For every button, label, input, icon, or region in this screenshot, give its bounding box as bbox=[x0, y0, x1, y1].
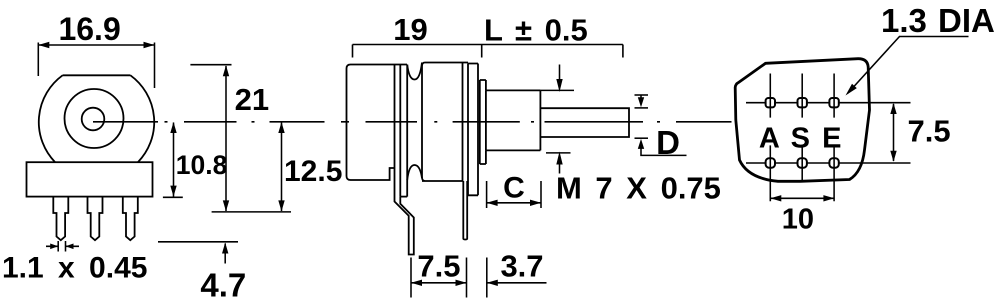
svg-text:19: 19 bbox=[393, 12, 427, 47]
front view outer body circle with flat top bbox=[39, 75, 154, 162]
dim 10 arrowheads bbox=[770, 195, 834, 201]
front view shaft small circle bbox=[82, 108, 105, 131]
dim 12.5 vertical line bbox=[281, 123, 283, 212]
centerline leader from shaft circle center bbox=[93, 121, 158, 123]
dim 7.5 ticks bbox=[411, 258, 467, 298]
svg-text:12.5: 12.5 bbox=[284, 155, 342, 188]
svg-text:7.5: 7.5 bbox=[908, 114, 951, 149]
hole S bottom bbox=[798, 158, 807, 167]
side view collar bbox=[480, 80, 486, 164]
side view body section 1 flange lines bbox=[395, 65, 408, 197]
bushing top edge extension bbox=[540, 89, 574, 91]
callout underline bbox=[899, 36, 969, 38]
callout arrowhead bbox=[846, 84, 857, 96]
side view bent leg bbox=[395, 180, 414, 255]
svg-text:C: C bbox=[503, 172, 525, 205]
centerline dash-dot segments bbox=[165, 121, 732, 123]
dim bracket ticks bbox=[353, 45, 623, 58]
dim 3.7 arrowhead bbox=[487, 280, 498, 286]
svg-text:E: E bbox=[822, 123, 841, 155]
pin 1 bbox=[53, 197, 68, 241]
side view mounting plate bbox=[468, 64, 478, 196]
svg-text:21: 21 bbox=[235, 82, 269, 117]
thread arrows bbox=[556, 79, 562, 165]
dim 10.8 bottom reference line bbox=[163, 196, 183, 198]
dim 4.7 arrowhead bbox=[222, 243, 228, 254]
svg-text:10: 10 bbox=[782, 204, 814, 236]
side view body section 2 bbox=[422, 63, 468, 182]
svg-text:16.9: 16.9 bbox=[58, 11, 120, 47]
dim 7.5 rear arrowheads bbox=[890, 103, 896, 162]
dim 3.7 line bbox=[487, 282, 547, 284]
side view body section 1 bbox=[347, 65, 408, 181]
dim 21 bottom reference line bbox=[212, 211, 291, 213]
dim 21 vertical line bbox=[225, 66, 227, 211]
dim 4.7 vertical line bbox=[224, 244, 226, 264]
hole A top bbox=[766, 98, 775, 107]
dim 7.5 arrowheads bbox=[411, 280, 467, 286]
dim 4.7 reference line (pin tips) bbox=[158, 241, 238, 243]
dim 7.5 rear vertical line bbox=[893, 104, 895, 161]
dim 10.8 vertical line bbox=[173, 123, 175, 197]
hole E top bbox=[829, 98, 838, 107]
svg-text:L ± 0.5: L ± 0.5 bbox=[484, 13, 588, 48]
svg-text:10.8: 10.8 bbox=[176, 150, 228, 180]
column lines bottom row bbox=[770, 145, 834, 201]
dim 16.9 line bbox=[38, 44, 154, 46]
side view middle pin tab bbox=[400, 196, 407, 198]
dim D upper stem bbox=[640, 95, 642, 98]
dim 19 / L bracket line bbox=[353, 44, 623, 46]
dim C ticks bbox=[487, 181, 541, 208]
thread lower arrow stem bbox=[559, 165, 561, 174]
rear view hole column lines bbox=[770, 74, 834, 202]
dim C arrowheads bbox=[487, 200, 541, 206]
hole S top bbox=[798, 98, 807, 107]
svg-text:7.5: 7.5 bbox=[417, 249, 460, 284]
front view middle circle bbox=[65, 89, 124, 148]
dim 12.5 arrowheads bbox=[278, 122, 284, 211]
dim 7.5 line bbox=[411, 282, 467, 284]
shaft top edge extension bbox=[635, 107, 649, 109]
hole E bottom bbox=[829, 158, 838, 167]
side view straight leg bbox=[463, 181, 467, 240]
svg-text:A: A bbox=[759, 123, 780, 155]
svg-text:3.7: 3.7 bbox=[500, 249, 543, 284]
dim D arrowheads bbox=[638, 97, 644, 149]
dim 16.9 extension lines bbox=[38, 43, 154, 89]
dim 16.9 arrowheads bbox=[38, 42, 154, 48]
svg-text:D: D bbox=[656, 124, 680, 161]
side view threaded bushing bbox=[486, 90, 541, 150]
shaft bottom edge extension bbox=[635, 137, 649, 139]
svg-text:M 7 X 0.75: M 7 X 0.75 bbox=[556, 171, 721, 206]
dim 10 line bbox=[770, 197, 834, 199]
rear view outline bbox=[735, 59, 869, 182]
svg-text:4.7: 4.7 bbox=[200, 267, 246, 302]
callout leader line bbox=[848, 37, 900, 94]
row centerline top bbox=[746, 102, 911, 104]
dim 21 top reference line bbox=[190, 64, 231, 66]
pin width arrowheads bbox=[50, 244, 73, 250]
dim D lower stem and leader bbox=[641, 146, 687, 155]
svg-text:1.1 x 0.45: 1.1 x 0.45 bbox=[2, 252, 147, 285]
svg-text:1.3 DIA: 1.3 DIA bbox=[881, 2, 995, 39]
thread upper arrow stem bbox=[559, 65, 561, 80]
front view base rectangle bbox=[27, 162, 153, 196]
dim C line bbox=[487, 202, 541, 204]
svg-text:S: S bbox=[791, 123, 810, 155]
dim 3.7 tick bbox=[486, 258, 488, 298]
side view waist neck curves bbox=[407, 63, 422, 181]
pin 2 bbox=[88, 197, 103, 241]
dim 10.8 arrowheads bbox=[170, 122, 176, 197]
rear view row centerlines bbox=[746, 103, 911, 163]
pin width dim ticks bbox=[58, 241, 65, 252]
dim 21 arrowheads bbox=[223, 65, 229, 211]
dim D upper bar bbox=[635, 94, 649, 96]
pin 3 bbox=[123, 197, 138, 241]
pin width dim arrow lines bbox=[46, 245, 79, 247]
column lines top row bbox=[770, 74, 834, 118]
row centerline bottom bbox=[746, 162, 911, 164]
hole A bottom bbox=[766, 158, 775, 167]
side view shaft bbox=[540, 108, 629, 137]
bushing bottom edge extension bbox=[546, 152, 571, 154]
rear view pin holes bbox=[766, 98, 839, 168]
